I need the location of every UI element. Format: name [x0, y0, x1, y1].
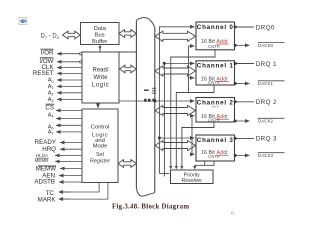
riser R1	[158, 27, 160, 174]
wire DACK1	[235, 83, 250, 85]
wire ch0 bottom to priority riser R3	[171, 50, 215, 167]
wire A1	[57, 85, 82, 87]
bidirectional bus arrow Read/Write Logic to internal bus	[120, 65, 137, 73]
svg-text:CNTR: CNTR	[208, 44, 220, 49]
wire HLDA	[55, 154, 82, 156]
box Channel 2	[196, 98, 235, 123]
internal bus right edge	[154, 27, 156, 192]
svg-text:Control: Control	[91, 125, 110, 131]
tiny marks near bus	[144, 90, 149, 91]
svg-text:DACK3: DACK3	[258, 153, 274, 158]
wire Channel 3 header arrow	[159, 137, 194, 139]
svg-text:HRQ: HRQ	[42, 146, 56, 153]
box Data Bus Buffer	[81, 23, 120, 45]
bus arrow internal bus to Channel 1	[155, 66, 196, 76]
wire A2	[57, 92, 82, 94]
wire A3	[57, 98, 82, 100]
wire I/OR	[57, 53, 80, 55]
svg-text:Fig.3.48. Block Diagram: Fig.3.48. Block Diagram	[112, 203, 189, 210]
svg-text:Write: Write	[94, 75, 109, 81]
wire DACK3	[235, 154, 250, 156]
svg-text:Bus: Bus	[95, 33, 105, 39]
box Priority Resolver	[171, 170, 214, 184]
svg-text:Resolver: Resolver	[181, 178, 202, 184]
wire Channel 0 header arrow	[159, 26, 194, 28]
wire Channel 1 header arrow	[164, 62, 194, 64]
wire ch3 bottom U to priority	[205, 161, 214, 165]
wire MARK	[60, 183, 108, 200]
svg-text:u/Bit-Ib: u/Bit-Ib	[211, 105, 220, 109]
wire HRQ	[60, 148, 82, 150]
wire TC	[60, 183, 99, 193]
riser R7 mid taps ch2 ch3	[191, 116, 193, 155]
wire DRQ3	[235, 137, 254, 139]
box Control Logic and Mode Set Register	[82, 109, 118, 183]
node junction ch1	[163, 62, 166, 65]
node junction bus/ch2	[154, 100, 157, 103]
wire DRQ1	[235, 63, 254, 65]
wire DACK2	[235, 120, 250, 122]
wire AEN	[59, 175, 82, 177]
svg-text:DACK2: DACK2	[258, 119, 274, 124]
riser R6 mid taps ch0 ch1	[187, 46, 189, 93]
svg-text:Data: Data	[94, 26, 107, 32]
bus arrow internal bus to Channel 0	[155, 31, 196, 41]
svg-text:MARK: MARK	[38, 197, 57, 204]
svg-text:CNTR: CNTR	[208, 117, 220, 122]
wire CLK	[57, 67, 82, 69]
wire I/OW	[57, 61, 80, 63]
svg-text:MEMR: MEMR	[34, 158, 49, 163]
svg-text:CS: CS	[45, 104, 54, 111]
icon placeholder top-left	[19, 18, 27, 25]
wire ch1 bottom to priority riser R4	[176, 85, 214, 167]
bidirectional bus arrow D7-D0 to Data Bus Buffer	[63, 31, 81, 39]
wire Channel 3 mid arrow	[192, 153, 195, 155]
wire CS	[56, 110, 82, 112]
svg-text:DRQ 2: DRQ 2	[256, 99, 277, 106]
wire A4	[56, 118, 82, 120]
svg-text:DACK0: DACK0	[258, 43, 274, 48]
box Channel 3	[196, 135, 235, 161]
svg-text:Read/: Read/	[92, 68, 108, 74]
wire stub below Data Bus Buffer to bus	[100, 45, 136, 53]
wire MEMW	[60, 167, 82, 169]
bidirectional bus arrow Data Bus Buffer to internal bus	[119, 30, 136, 38]
svg-text:ADSTB: ADSTB	[34, 179, 55, 186]
svg-text:Channel 3: Channel 3	[197, 137, 234, 144]
svg-text:CNTR: CNTR	[208, 80, 220, 85]
svg-text:DRQ 3: DRQ 3	[256, 136, 277, 143]
wire DRQ0	[235, 26, 254, 28]
svg-text:DRQ0: DRQ0	[256, 24, 275, 31]
bus arrow internal bus to Channel 2	[155, 105, 196, 115]
wire Channel 0 mid arrow	[188, 45, 194, 47]
internal bus wavy top	[136, 18, 154, 28]
svg-text:Logic: Logic	[92, 83, 109, 89]
bus arrow internal bus to Channel 3	[155, 140, 196, 150]
wire Read/Write bottom to Channel 2 header	[119, 100, 195, 102]
internal bus wavy bottom	[136, 188, 154, 196]
svg-text:Buffer: Buffer	[92, 39, 107, 45]
svg-text:RESET: RESET	[33, 70, 54, 77]
wire R1 R2 to priority left	[159, 172, 169, 174]
svg-text:Set: Set	[96, 152, 105, 158]
svg-text:D7 - D0: D7 - D0	[41, 34, 60, 40]
svg-text:DACK1: DACK1	[258, 81, 274, 86]
box Channel 1	[196, 61, 235, 85]
wire A0	[57, 79, 82, 81]
bidirectional bus arrow Control Logic to internal bus	[118, 160, 136, 168]
box Channel 0	[196, 22, 235, 50]
svg-text:CNTR: CNTR	[208, 154, 220, 159]
svg-text:o: o	[231, 211, 234, 217]
wire A6	[56, 124, 82, 126]
wire DRQ2	[235, 101, 254, 103]
wire A7	[56, 131, 82, 133]
box Read/Write Logic	[82, 52, 119, 103]
wire ch2 bottom to priority riser R5	[182, 122, 214, 167]
svg-text:DRQ 1: DRQ 1	[256, 61, 277, 68]
wire DACK0	[235, 44, 250, 46]
node junction ch3	[158, 137, 161, 140]
wire MEMR	[55, 160, 82, 162]
svg-text:Mode: Mode	[93, 143, 108, 149]
wire ADSTB	[59, 181, 82, 183]
svg-text:Register: Register	[90, 158, 110, 164]
riser R2	[163, 63, 165, 173]
wire Channel 1 mid arrow	[188, 77, 194, 79]
internal bus left edge	[135, 21, 137, 189]
svg-text:I/OR: I/OR	[41, 49, 54, 56]
wire RESET	[57, 72, 82, 74]
svg-text:Channel 0: Channel 0	[197, 24, 234, 31]
wire Read/Write Logic to Control Logic	[97, 103, 99, 108]
wire Channel 2 mid arrow	[192, 115, 195, 117]
svg-text:Channel 1: Channel 1	[197, 63, 234, 70]
wire READY	[60, 142, 82, 144]
